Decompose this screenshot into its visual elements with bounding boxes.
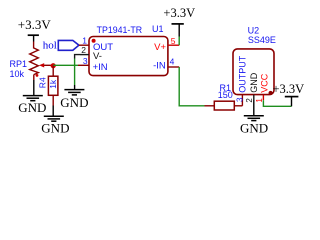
svg-text:+3.3V: +3.3V bbox=[18, 17, 52, 32]
svg-text:GND: GND bbox=[60, 95, 88, 110]
pin 1 VCC bbox=[255, 73, 270, 102]
resistor R4 bbox=[48, 76, 58, 95]
svg-text:GND: GND bbox=[18, 100, 46, 115]
op-amp U1 TP1941-TR bbox=[89, 24, 168, 76]
wire power to RP1 bbox=[33, 42, 35, 49]
pin 4 -IN bbox=[153, 57, 179, 72]
pin 3 OUTPUT bbox=[236, 55, 248, 102]
svg-text:V-: V- bbox=[93, 51, 102, 62]
pin 5 V+ bbox=[154, 36, 179, 53]
svg-text:1: 1 bbox=[82, 35, 87, 45]
pin 1 OUT bbox=[79, 35, 113, 52]
svg-text:hol: hol bbox=[43, 39, 57, 51]
pin 3 +IN bbox=[78, 56, 108, 73]
svg-text:GND: GND bbox=[249, 72, 259, 93]
svg-text:2: 2 bbox=[245, 98, 254, 103]
ground (under RP1) bbox=[18, 96, 46, 115]
svg-text:GND: GND bbox=[240, 121, 268, 136]
svg-text:1: 1 bbox=[255, 98, 264, 103]
wire R4 to GND bbox=[52, 95, 54, 105]
wire V- down to +IN net bbox=[75, 55, 80, 59]
ground (under R4) bbox=[41, 116, 69, 135]
svg-text:10k: 10k bbox=[10, 69, 25, 79]
wire pin 4 to R1 bbox=[179, 67, 204, 106]
svg-text:3: 3 bbox=[236, 97, 245, 102]
node junction (wiper / R4 / +IN) bbox=[51, 63, 56, 68]
wire junction to +IN bbox=[53, 64, 78, 66]
svg-text:VCC: VCC bbox=[260, 73, 270, 93]
svg-text:150: 150 bbox=[218, 90, 233, 100]
wire net down to GND bbox=[74, 59, 76, 86]
svg-text:+3.3V: +3.3V bbox=[163, 6, 195, 20]
svg-text:3: 3 bbox=[83, 56, 88, 66]
svg-text:+3.3V: +3.3V bbox=[273, 82, 305, 96]
pin 2 V- bbox=[80, 45, 102, 62]
svg-text:-IN: -IN bbox=[153, 61, 166, 72]
svg-text:RP1: RP1 bbox=[10, 59, 28, 69]
svg-text:V+: V+ bbox=[154, 42, 166, 53]
wire R1 to U2 pin 3 bbox=[241, 95, 243, 106]
wire U2 GND pin to ground bbox=[253, 100, 255, 116]
ground (V-/+IN net) bbox=[60, 90, 88, 110]
svg-text:1k: 1k bbox=[48, 79, 58, 89]
pin 2 GND bbox=[245, 72, 259, 102]
wire junction down to R4 bbox=[52, 66, 54, 77]
wire VCC to +3.3V bbox=[263, 100, 291, 106]
svg-text:SS49E: SS49E bbox=[248, 35, 276, 45]
svg-text:5: 5 bbox=[171, 36, 176, 46]
svg-text:2: 2 bbox=[81, 45, 86, 55]
power +3.3V (above U1) bbox=[163, 6, 195, 36]
wire +3.3V to pin 5 bbox=[178, 37, 180, 46]
wire RP1 to GND bbox=[33, 80, 35, 96]
ground (under U2) bbox=[240, 116, 268, 136]
svg-text:U1: U1 bbox=[152, 24, 164, 34]
resistor R1 bbox=[205, 101, 243, 110]
svg-text:+IN: +IN bbox=[93, 62, 108, 73]
power +3.3V (right) bbox=[273, 82, 305, 107]
svg-text:R4: R4 bbox=[37, 77, 47, 88]
svg-text:GND: GND bbox=[41, 120, 69, 135]
svg-text:TP1941-TR: TP1941-TR bbox=[97, 25, 142, 35]
resistor RP1 (potentiometer) bbox=[30, 48, 54, 80]
net label hol bbox=[43, 39, 79, 51]
svg-text:OUTPUT: OUTPUT bbox=[238, 55, 248, 93]
sensor U2 SS49E bbox=[233, 25, 276, 95]
power +3.3V (left) bbox=[18, 17, 52, 41]
svg-text:4: 4 bbox=[170, 57, 175, 67]
